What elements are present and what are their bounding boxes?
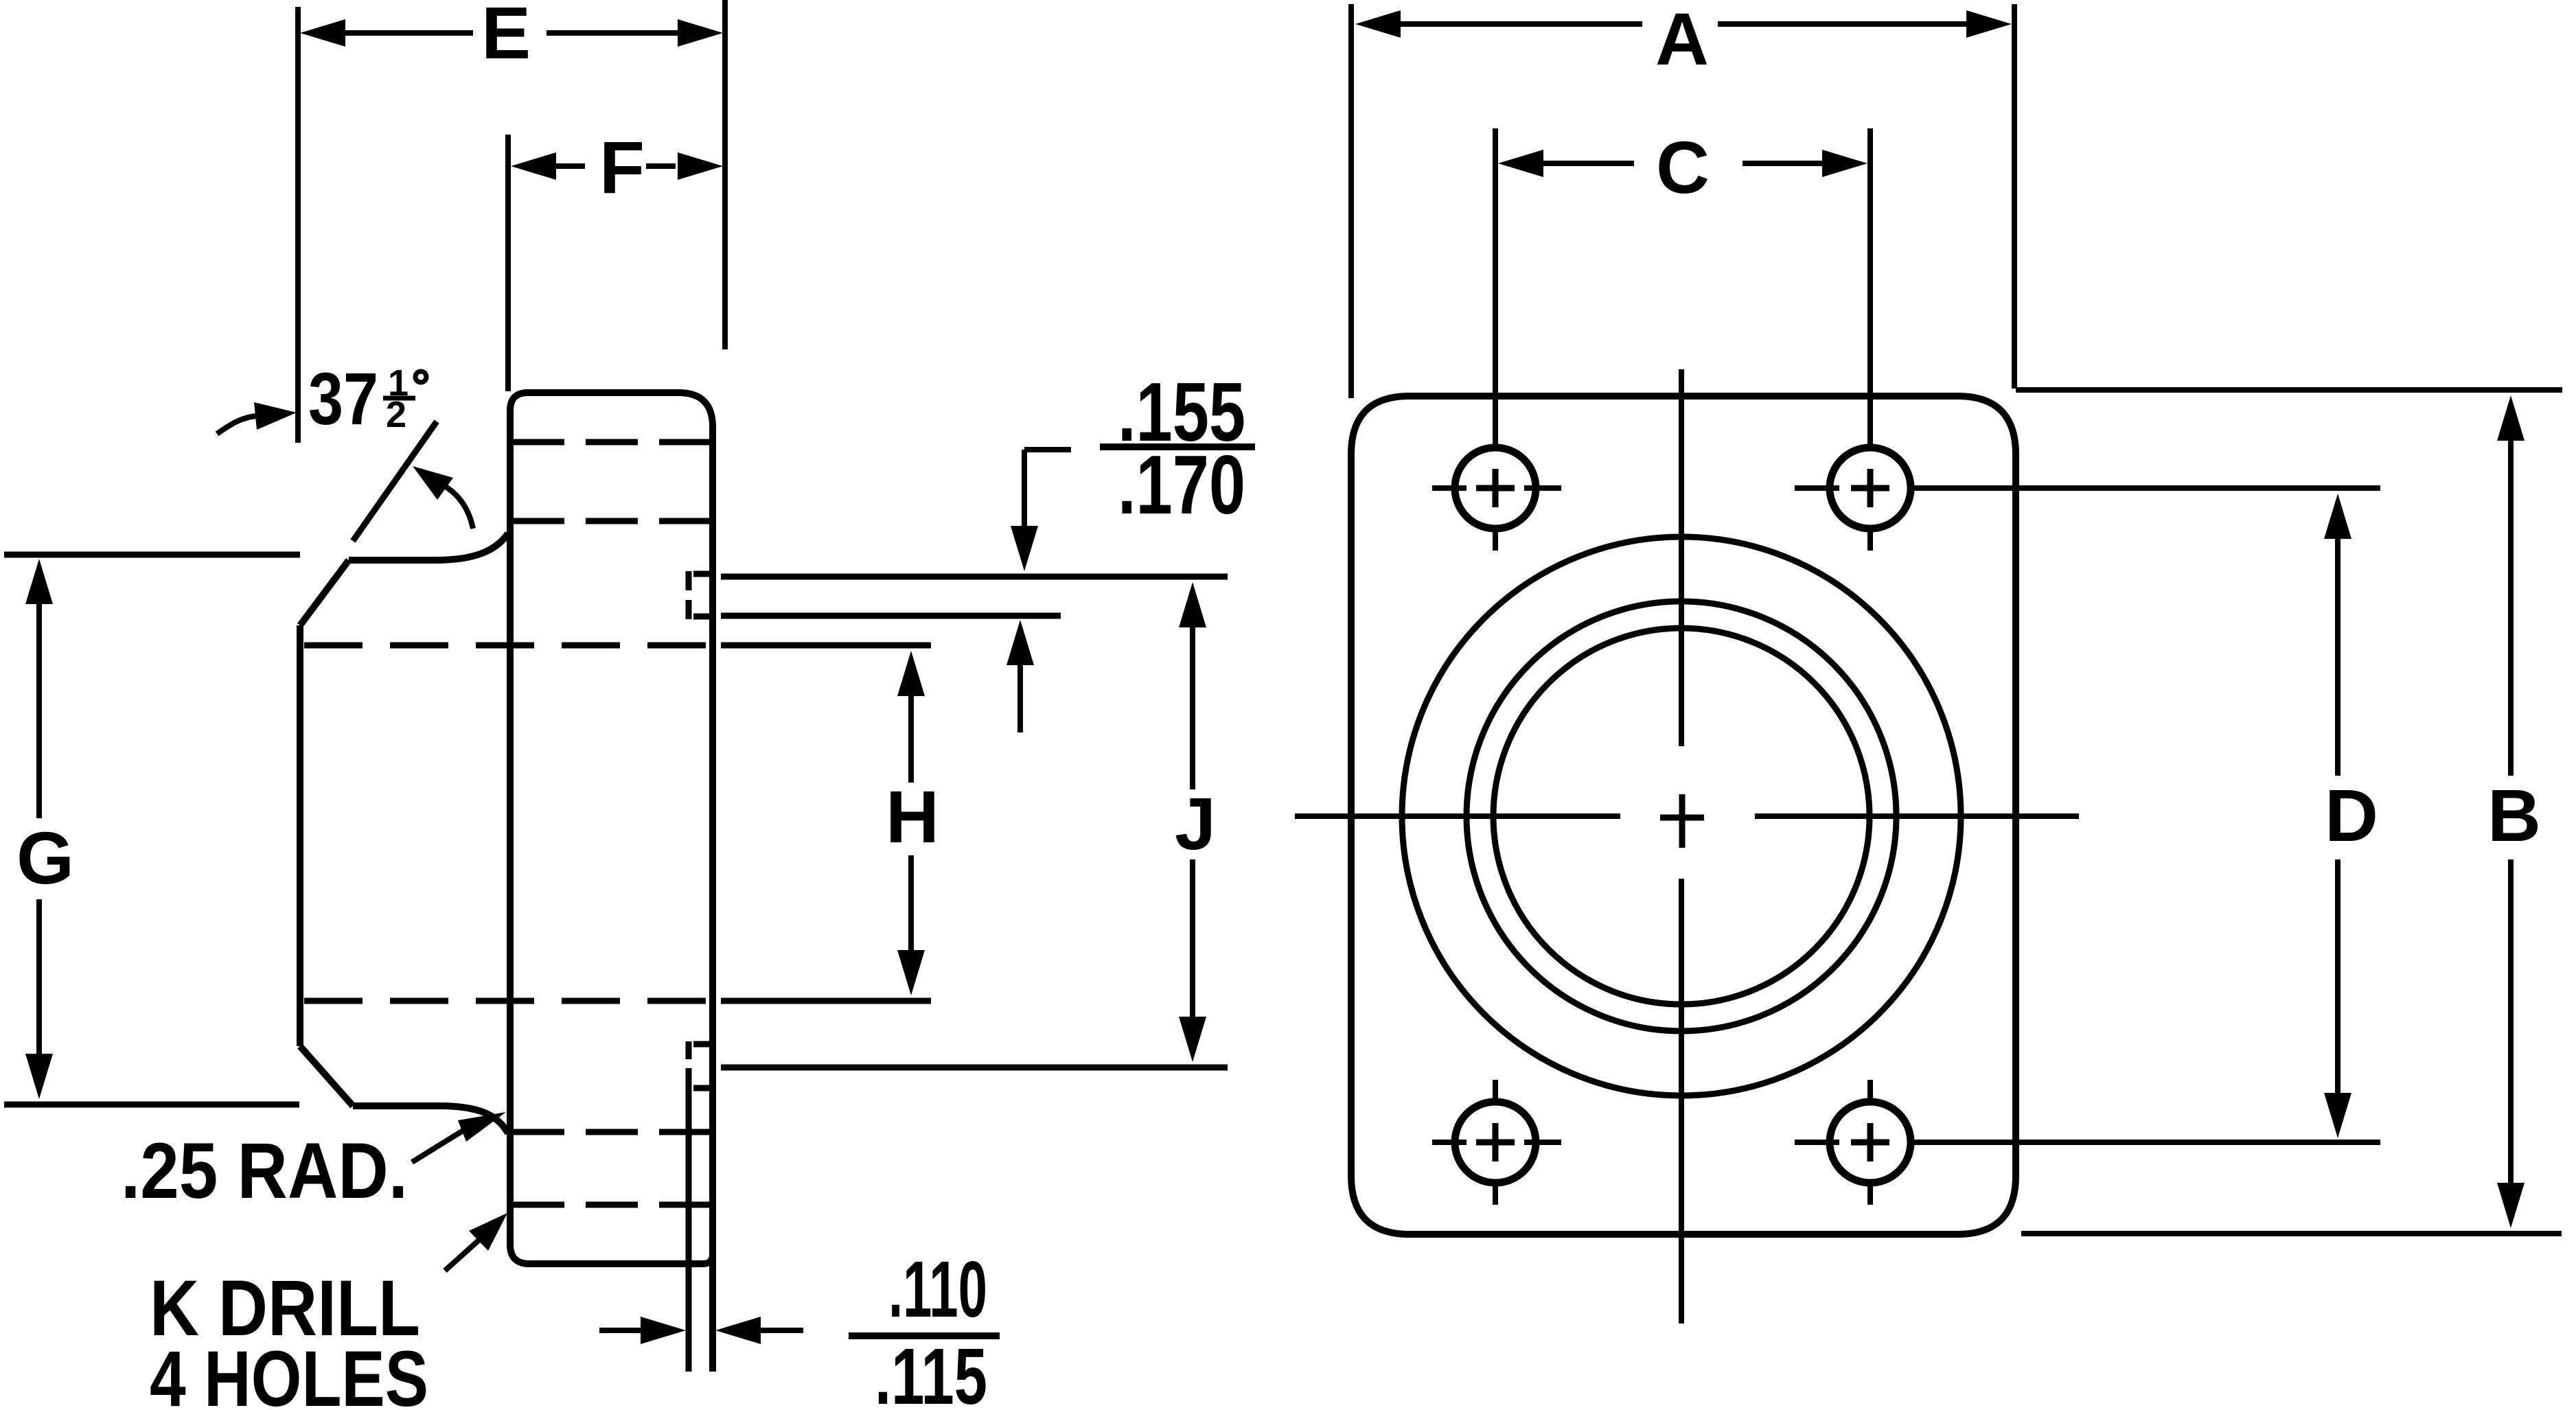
dimension A arrows and line	[1401, 21, 1968, 27]
svg-text:G: G	[16, 816, 74, 899]
svg-text:.25 RAD.: .25 RAD.	[121, 1127, 408, 1215]
dimension J arrow	[1190, 627, 1195, 1017]
svg-text:2: 2	[386, 394, 406, 435]
J bottom reference line	[721, 1065, 1228, 1071]
svg-text:C: C	[1656, 126, 1710, 209]
plate left edge	[507, 411, 514, 1245]
svg-text:D: D	[2325, 774, 2378, 857]
dimension E arrows and line	[345, 30, 678, 36]
hidden hole line H top (dashed through body and plate)	[304, 643, 710, 649]
dimension F arrows and line	[556, 163, 676, 169]
hidden dashed line in plate (lower 1)	[512, 1129, 710, 1135]
body bottom fillet .25 RAD	[439, 1106, 508, 1133]
D top reference line through top-right hole	[1912, 485, 2380, 491]
G top reference line	[4, 552, 300, 558]
H bottom reference line	[721, 998, 931, 1004]
inner circle	[1493, 628, 1870, 1004]
svg-text:37: 37	[308, 357, 378, 440]
svg-text:4 HOLES: 4 HOLES	[150, 1335, 428, 1410]
flange body left edge	[297, 625, 303, 1046]
dimension E extension lines	[295, 7, 301, 443]
square flange outline	[1351, 396, 2016, 1234]
contact tab top line / J top reference	[721, 574, 1228, 580]
svg-text:.115: .115	[875, 1332, 987, 1410]
B bottom reference line	[2021, 1231, 2562, 1236]
svg-text:J: J	[1175, 782, 1216, 865]
dimension H arrow	[908, 696, 914, 950]
hidden slot bracket lower (dashed)	[686, 1041, 692, 1080]
dimension C extension lines	[1495, 128, 1870, 445]
svg-text:A: A	[1655, 0, 1709, 80]
hidden hole line H bottom (dashed through body and plate)	[304, 998, 710, 1004]
leader for .155/.170 lower arrow	[1017, 665, 1023, 732]
svg-text:F: F	[599, 126, 645, 209]
svg-text:.170: .170	[1118, 438, 1245, 531]
svg-text:H: H	[886, 775, 939, 858]
dimension A extension lines	[1348, 4, 1354, 398]
plate right edge extended down as extension line for .110/.115	[709, 427, 716, 1372]
B top reference line	[2016, 387, 2562, 393]
hidden slot bracket upper (dashed)	[686, 571, 692, 619]
center cross	[1660, 794, 1704, 848]
contact tab bottom line	[721, 613, 1061, 619]
chamfer angle extension line	[353, 421, 437, 541]
vertical centerline	[1679, 369, 1684, 1324]
horizontal centerline	[1295, 813, 2079, 819]
leader for .25 RAD.	[412, 1130, 464, 1162]
body top chamfer 37.5 deg	[300, 560, 349, 625]
dimension G arrow	[36, 604, 42, 1054]
dimension .110/.115 arrows	[599, 1328, 803, 1333]
dimension D arrow	[2335, 539, 2341, 1093]
G bottom reference line	[4, 1102, 299, 1108]
H top reference line	[721, 643, 931, 649]
mounting hole bottom-right	[1830, 1102, 1911, 1183]
body top flat	[349, 557, 435, 564]
mounting hole top-left	[1455, 448, 1536, 529]
svg-text:E: E	[481, 0, 531, 74]
svg-text:B: B	[2487, 774, 2541, 857]
leader for .155/.170 upper arrow	[1024, 450, 1071, 526]
mounting hole bottom-left	[1455, 1102, 1536, 1183]
hidden dashed line in plate (upper 1)	[512, 439, 710, 446]
middle circle	[1467, 601, 1896, 1031]
angle arc arrow (right)	[439, 483, 473, 529]
body top fillet to plate	[435, 533, 508, 560]
svg-text:.110: .110	[888, 1245, 987, 1334]
dimension F extension line	[505, 135, 511, 391]
extension line for .110/.115 (inner face)	[686, 1080, 692, 1372]
mounting hole top-right	[1830, 448, 1911, 529]
plate bottom-left corner and bottom edge	[510, 1245, 713, 1264]
body bottom chamfer	[300, 1046, 353, 1106]
body bottom flat	[353, 1102, 439, 1109]
D bottom reference line through bottom-right hole	[1912, 1140, 2380, 1145]
plate top edge with corners	[510, 393, 713, 427]
hidden dashed line in plate (upper 2)	[512, 518, 710, 524]
outer circle	[1402, 537, 1961, 1096]
dimension B arrow	[2508, 441, 2514, 1183]
angle leader curved arrow (left)	[217, 416, 255, 434]
leader for K DRILL	[445, 1240, 479, 1271]
dimension C arrows and line	[1543, 161, 1822, 166]
hidden dashed line in plate (lower 2)	[512, 1202, 710, 1208]
